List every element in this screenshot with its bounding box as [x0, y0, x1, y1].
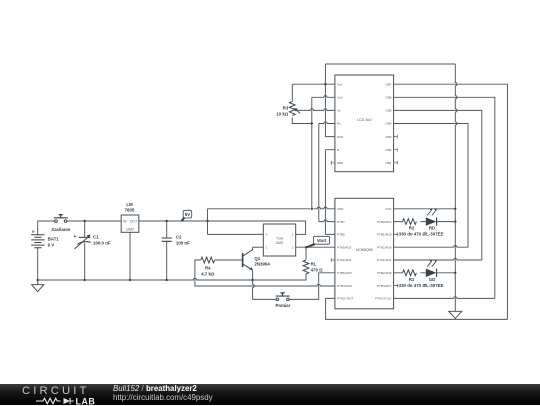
junction LED RD cathode [454, 220, 456, 222]
wire LCD DB4 row and vertical [394, 124, 468, 248]
svg-text:TL-307EE: TL-307EE [423, 283, 443, 288]
unconnected pin ticks MCU right pin3 pin7 [394, 233, 398, 288]
svg-text:OUT: OUT [130, 220, 138, 224]
ground left [32, 280, 44, 292]
wire battery top to switch [38, 221, 55, 235]
wire R2 leads [394, 221, 456, 223]
wire MCU VSS row [394, 208, 456, 210]
wire TGS pin4 row [208, 233, 264, 235]
svg-text:DB2: DB2 [385, 148, 391, 152]
resistor RL zigzag [303, 260, 309, 274]
wire TGS pin2 to Vout node to MCU PTA5 [296, 246, 335, 248]
svg-text:Vout: Vout [317, 238, 327, 243]
svg-text:+: + [32, 230, 35, 236]
wire R4 to Q1 base [215, 259, 243, 261]
wire 5V rail LM7805 OUT to TGS pin3 [139, 221, 306, 234]
wire button right to MCU PTB5 [289, 273, 335, 300]
svg-text:R/W: R/W [337, 135, 343, 139]
node 5V flag [181, 210, 191, 221]
wire MCU pin5 row to DB5 vertical with hop [394, 258, 482, 260]
gas sensor U2 TGS2620 box [263, 224, 295, 256]
wire 5V branch vertical at x207.5 [207, 209, 209, 235]
potentiometer R3 wiper arrow [296, 110, 300, 113]
resistor R1 zigzag [403, 270, 417, 276]
svg-text:PTB5/AD5: PTB5/AD5 [337, 271, 352, 275]
svg-text:PTA2/AD6: PTA2/AD6 [377, 245, 392, 249]
svg-text:R4: R4 [205, 265, 211, 270]
unconnected pin tick MCU PTA4 [331, 258, 335, 262]
resistor R4 zigzag [201, 257, 215, 263]
junction Q1 emitter rail [251, 279, 253, 281]
svg-text:2: 2 [292, 246, 294, 250]
wire switch to LM7805 IN [67, 220, 121, 222]
svg-text:~330 do 470 Ω: ~330 do 470 Ω [396, 232, 426, 237]
wire C1 top lead [84, 221, 86, 237]
transistor Q1 2N3904 [243, 247, 253, 270]
wire right main vertical with hops over DB rows [455, 64, 457, 311]
svg-text:470 Ω: 470 Ω [311, 267, 324, 272]
wire LCD DB5 row and vertical [394, 110, 482, 260]
svg-text:VDD: VDD [337, 207, 344, 211]
wire Vss row R3 top to LCD [292, 84, 335, 101]
unconnected pin tick LCD DB0 [331, 161, 335, 165]
junction R3 bottom 5V [311, 122, 313, 124]
svg-text:DB6: DB6 [385, 96, 391, 100]
junction Vss row [324, 83, 326, 85]
svg-text:Zasilanie: Zasilanie [51, 227, 70, 232]
svg-text:Vdd: Vdd [337, 96, 343, 100]
svg-text:1: 1 [266, 246, 268, 250]
junction VSS row right [454, 208, 456, 210]
svg-text:DB3: DB3 [385, 135, 391, 139]
battery BAT1 plates [31, 235, 44, 248]
wire MCU PTA3 loop to DB7 vertical [326, 298, 508, 319]
resistor R2 zigzag [403, 219, 417, 225]
LED RD symbol [426, 209, 437, 226]
svg-text:4: 4 [266, 233, 268, 237]
wire vertical Rs to PTB7 [318, 124, 320, 222]
svg-text:~330 do 470 Ω: ~330 do 470 Ω [396, 283, 426, 288]
svg-text:PTB4/AD8: PTB4/AD8 [337, 284, 352, 288]
svg-text:PTB6: PTB6 [337, 233, 345, 237]
footer bar [0, 384, 540, 405]
wire C1 bottom lead [84, 243, 86, 280]
footer url [113, 393, 213, 402]
CircuitLab logo text [22, 385, 90, 397]
svg-text:PTB3/AD7: PTB3/AD7 [377, 284, 392, 288]
wire battery bottom lead [37, 248, 39, 280]
wire MCU pin4 row to DB4 vertical with hop [394, 246, 468, 248]
wire Rs row from vertical to LCD with hop [319, 122, 335, 124]
svg-text:RL: RL [311, 261, 317, 266]
wire C2 top lead [166, 221, 168, 238]
svg-text:VSS: VSS [385, 207, 391, 211]
svg-text:7805: 7805 [125, 207, 135, 212]
wire RL bottom lead [305, 274, 307, 280]
LED GD symbol [426, 260, 437, 277]
junction C2 top [166, 220, 168, 222]
svg-text:DB4: DB4 [385, 122, 391, 126]
svg-text:Q1: Q1 [254, 256, 260, 261]
svg-text:TL-307EE: TL-307EE [423, 232, 443, 237]
junction VDD row [311, 208, 313, 210]
svg-text:R2: R2 [409, 226, 415, 231]
regulator U1 LM7805 box [121, 215, 139, 232]
capacitor C1 plates and arrow [77, 237, 91, 244]
svg-text:R1: R1 [409, 277, 415, 282]
capacitor C2 plates [162, 238, 172, 241]
junction battery ground [37, 279, 39, 281]
node Vout flag [307, 236, 330, 247]
wire VDD row to MCU with hops [208, 207, 335, 209]
svg-text:C1: C1 [93, 234, 99, 239]
svg-text:3: 3 [292, 233, 294, 237]
svg-text:Vss: Vss [337, 82, 343, 86]
wire R4 left lead down and row to PTB4 with hop [195, 260, 335, 286]
wire MCU pin8 row to DB6 vertical with hop [394, 297, 495, 299]
svg-text:GND: GND [126, 228, 134, 232]
svg-text:4.7 kΩ: 4.7 kΩ [201, 271, 215, 276]
node Vout junction [305, 246, 307, 248]
svg-text:DB7: DB7 [385, 82, 391, 86]
svg-text:R3: R3 [283, 105, 289, 110]
svg-text:IN: IN [123, 220, 127, 224]
wire vertical 5V net Vdd to VDD row [311, 97, 313, 209]
svg-text:LAB: LAB [76, 396, 96, 406]
junction LED GD cathode [454, 272, 456, 274]
svg-text:E: E [337, 148, 339, 152]
svg-text:Vo: Vo [337, 109, 341, 113]
svg-text:RD: RD [429, 226, 435, 231]
wire Vo wiper row with hops [296, 109, 335, 111]
wire Vdd pin row with hop [312, 96, 335, 98]
wire C2 bottom lead [166, 241, 168, 280]
wire Q1 collector to TGS pin1 [253, 246, 264, 248]
junction C1 top [84, 220, 86, 222]
wire LCD DB6 row and vertical [394, 97, 495, 298]
pushbutton Pomiar [276, 293, 290, 301]
svg-text:LCD 8x2: LCD 8x2 [357, 118, 372, 122]
ground right [449, 311, 462, 318]
svg-text:PTA5/AD3: PTA5/AD3 [337, 245, 352, 249]
svg-text:BAT1: BAT1 [48, 236, 60, 241]
svg-text:DB0: DB0 [337, 161, 343, 165]
display U3 LCD 8x2 box [335, 75, 394, 172]
junction 5V branch [206, 220, 208, 222]
switch Zasilanie [54, 214, 68, 222]
svg-text:Rs: Rs [337, 122, 341, 126]
wire R1 leads [394, 272, 456, 274]
svg-text:GD: GD [429, 277, 436, 282]
footer title [113, 384, 197, 393]
svg-text:2N3904: 2N3904 [254, 261, 270, 266]
wire Q1 emitter down to rail and button with hop [253, 270, 277, 299]
potentiometer R3 zigzag [289, 102, 295, 116]
wire LM7805 GND down [129, 232, 131, 280]
microcontroller U4 MC908 box [335, 198, 394, 308]
svg-text:C2: C2 [176, 234, 182, 239]
junction C2 bottom [166, 279, 168, 281]
svg-text:DB5: DB5 [385, 109, 391, 113]
svg-text:5V: 5V [185, 212, 190, 217]
CircuitLab logo symbol and LAB [22, 396, 98, 406]
wire bottom ground rail with hop over R4 wire [38, 274, 306, 280]
svg-text:10 kΩ: 10 kΩ [276, 111, 289, 116]
junction C1 bottom [84, 279, 86, 281]
svg-text:PTB7: PTB7 [337, 220, 345, 224]
svg-text:MC908QB8: MC908QB8 [356, 248, 373, 252]
wire LCD DB7 row and vertical [394, 84, 508, 319]
junction LM7805 GND rail [129, 279, 131, 281]
svg-text:100 nF: 100 nF [176, 240, 190, 245]
wire PTB7 row with hop [319, 220, 335, 222]
svg-text:Pomiar: Pomiar [275, 303, 290, 308]
wire RL top lead [305, 247, 307, 260]
svg-text:PTB1/AD5: PTB1/AD5 [377, 233, 392, 237]
unconnected pin ticks LCD DB3 DB2 DB1 [394, 135, 398, 165]
svg-text:9 V: 9 V [48, 242, 55, 247]
wire ground net: top wire over LCD [325, 63, 455, 65]
svg-text:100.0 uF: 100.0 uF [93, 240, 111, 245]
svg-text:DB1: DB1 [385, 161, 391, 165]
svg-text:PTA4/AD2: PTA4/AD2 [337, 258, 352, 262]
svg-text:PTB0/AD4: PTB0/AD4 [377, 220, 392, 224]
svg-text:PTA1/AD1: PTA1/AD1 [377, 258, 392, 262]
svg-text:PTA2/TCLK: PTA2/TCLK [375, 297, 392, 301]
svg-text:LM: LM [126, 202, 133, 207]
svg-text:+: + [73, 234, 76, 240]
wire R3 bottom to 5V vertical [292, 118, 312, 124]
wire vertical A top-wire to R/W [325, 64, 335, 137]
svg-text:PTA3/~RST: PTA3/~RST [337, 297, 353, 301]
wire vertical B E-row to PTB6 [325, 150, 335, 235]
svg-text:PTB2/AD6: PTB2/AD6 [377, 271, 392, 275]
svg-text:2620: 2620 [276, 241, 284, 245]
